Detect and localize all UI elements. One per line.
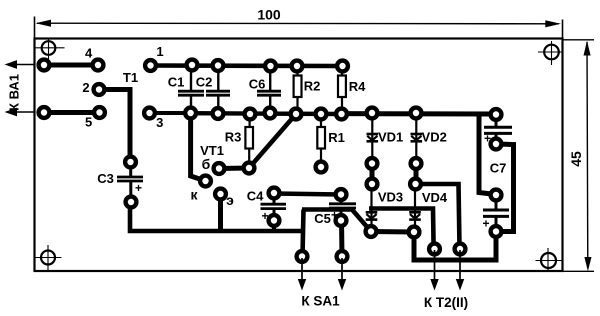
wire pad5L to pad5R	[44, 110, 100, 115]
pad C1 top	[184, 57, 199, 72]
wire pad2 to C3 top (T1 winding)	[99, 90, 130, 163]
resistor R4	[338, 76, 346, 98]
wire top bus pad1 to R4 top	[151, 63, 343, 68]
pad 3	[142, 105, 157, 120]
wire pad4L to pad4R	[44, 63, 98, 68]
svg-text:К Т2(II): К Т2(II)	[424, 295, 468, 310]
pad 5 left	[36, 105, 51, 120]
mounting hole bottom-right	[536, 248, 562, 271]
board outline	[35, 39, 563, 272]
pad C7 upper top	[488, 107, 503, 122]
wire VD3 anode to T2 pad left	[369, 209, 434, 248]
lead C6	[269, 70, 271, 90]
svg-text:э: э	[226, 192, 234, 208]
svg-text:3: 3	[156, 115, 163, 130]
capacitor C1	[178, 91, 204, 95]
pad base b	[211, 161, 226, 176]
wire branch down to C7 lower section	[479, 114, 496, 195]
svg-text:С6: С6	[249, 76, 266, 91]
svg-text:VD3: VD3	[378, 189, 403, 204]
pad C4 top	[266, 185, 281, 200]
resistor R3	[245, 127, 253, 149]
wire C7 upper-bottom right loop	[496, 144, 514, 232]
pad R3 top	[242, 106, 257, 121]
pad 5 right	[92, 105, 107, 120]
lead C1	[190, 69, 192, 90]
extension line top (right dim)	[563, 39, 594, 41]
svg-text:С2: С2	[196, 75, 213, 90]
lead C7 lower	[495, 198, 498, 210]
svg-text:+: +	[135, 181, 142, 195]
lead R1	[320, 118, 322, 128]
svg-text:С3: С3	[97, 171, 114, 186]
wire VT1 collector from C1 junction	[191, 113, 206, 181]
extension line right (top dim)	[562, 20, 564, 39]
diode VD4	[409, 212, 421, 219]
pad C5 bottom	[333, 213, 348, 228]
pad C6 top	[263, 58, 278, 73]
diode VD1	[367, 134, 379, 141]
pad VD2 bottom	[408, 156, 423, 171]
extension line bottom (right dim)	[563, 270, 594, 272]
wire VD2 bottom junction	[414, 164, 419, 185]
pad 2	[91, 82, 106, 97]
svg-text:100: 100	[257, 7, 281, 23]
pad 1	[143, 58, 158, 73]
lead C4	[273, 196, 276, 204]
diode VD3	[366, 212, 378, 219]
pad C7 lower top	[488, 187, 503, 202]
label K BA1	[7, 74, 22, 111]
svg-text:к: к	[190, 187, 198, 203]
svg-text:б: б	[202, 156, 211, 172]
svg-text:С4: С4	[247, 189, 264, 204]
capacitor C2	[206, 91, 230, 95]
svg-text:С1: С1	[168, 75, 185, 90]
pad R4 bottom	[334, 106, 349, 121]
wire VD3 bottom to VD4 bottom	[371, 229, 414, 235]
pad VD4 bottom	[406, 224, 421, 239]
svg-text:+: +	[482, 217, 489, 231]
wire vertical to SA1 left pad	[303, 210, 304, 257]
pad VD1 bottom	[364, 156, 379, 171]
lead VD2	[415, 117, 417, 159]
pad 4 left	[36, 57, 51, 72]
svg-text:2: 2	[82, 80, 89, 95]
lead C5	[340, 197, 343, 204]
pad R2 bottom junction	[288, 106, 303, 121]
pad C2 bottom	[210, 106, 225, 121]
extension line left (top dim)	[34, 17, 36, 39]
svg-text:4: 4	[85, 46, 93, 61]
svg-text:С7: С7	[490, 161, 507, 176]
pad C6 bottom	[262, 105, 277, 120]
wire VD1 bottom junction	[370, 164, 375, 185]
pad C7 lower bottom	[488, 224, 503, 239]
lead VD1	[371, 117, 373, 159]
pad R4 top	[335, 58, 350, 73]
pad R3 bottom junction	[241, 160, 256, 175]
pad SA1 left	[294, 249, 309, 264]
svg-text:45: 45	[568, 151, 584, 167]
arrow K SA1 right	[338, 258, 346, 291]
wire C4 bottom stub to bus	[272, 221, 276, 231]
lead C2	[217, 69, 219, 90]
capacitor C7 upper section	[484, 127, 512, 133]
capacitor C5	[329, 204, 356, 208]
wire VD4 top to T2 pad right	[416, 184, 460, 248]
svg-text:R4: R4	[349, 79, 366, 94]
resistor R2	[294, 76, 302, 98]
svg-text:С5: С5	[314, 211, 331, 226]
wire base b pad to R3 bottom	[219, 166, 249, 172]
svg-text:Т1: Т1	[123, 70, 138, 85]
mounting hole top-right	[538, 41, 563, 65]
arrow to BA1 upper	[5, 60, 36, 69]
svg-text:R3: R3	[225, 130, 242, 145]
pad VD2 top	[408, 105, 423, 120]
pad R1 bottom	[313, 159, 328, 174]
pad VD4 top	[408, 176, 423, 191]
lead R4	[341, 70, 343, 77]
lead VD3	[370, 188, 372, 227]
lead R2	[296, 70, 298, 77]
pad emitter e	[213, 186, 228, 201]
wire horizontal to C5 bottom plate	[302, 207, 352, 212]
pad C4 bottom	[266, 213, 281, 228]
resistor R1	[317, 127, 325, 149]
capacitor C4	[261, 204, 287, 208]
dimension line 45	[586, 42, 589, 268]
arrow K T2 left	[430, 250, 438, 291]
pad C2 top	[210, 58, 225, 73]
wire row2 C1b to R4b	[191, 111, 342, 116]
lead C3	[129, 164, 132, 177]
capacitor C6	[257, 91, 281, 95]
pad C3 top	[123, 154, 138, 169]
svg-text:К ВА1: К ВА1	[7, 74, 22, 111]
pad 4 right	[90, 57, 105, 72]
arrow K T2 right	[456, 250, 464, 291]
mounting hole bottom-left	[35, 245, 62, 271]
wire emitter to ground bus	[218, 194, 223, 231]
wire row2 R4b to C7 top	[342, 111, 497, 116]
pad T2 right	[452, 241, 467, 256]
lead R3	[249, 118, 251, 128]
pad T2 left	[427, 241, 442, 256]
svg-text:К SA1: К SA1	[301, 294, 340, 309]
svg-text:VD2: VD2	[422, 130, 447, 145]
wire C4 top to C5 top	[274, 194, 341, 195]
lead C7 upper	[495, 117, 498, 128]
pad VD1 top	[364, 105, 379, 120]
arrow to BA1 lower	[5, 108, 36, 117]
pad C5 top	[333, 187, 348, 202]
pad R2 top	[289, 58, 304, 73]
pad VD3 top	[364, 176, 379, 191]
pad VD3 bottom	[363, 224, 378, 239]
pad C1 bottom junction	[183, 105, 198, 120]
lead VD4	[414, 188, 416, 227]
mounting hole top-left	[35, 39, 65, 60]
pad C7 upper bottom	[488, 136, 503, 151]
wire diagonal C5 to VD3 bottom	[352, 210, 371, 232]
dimension line 100	[37, 22, 559, 25]
pad collector k	[198, 173, 213, 188]
pad SA1 right	[334, 249, 349, 264]
label 45	[568, 151, 584, 167]
svg-text:R1: R1	[328, 130, 345, 145]
capacitor C7 lower section	[483, 210, 509, 216]
svg-text:R2: R2	[304, 79, 321, 94]
svg-text:5: 5	[85, 115, 92, 130]
pad R1 top	[313, 106, 328, 121]
capacitor C3	[117, 177, 143, 181]
wire C5 bottom to SA1 right pad	[339, 221, 345, 257]
wire diagonal R3 bottom to R2 bottom	[249, 114, 296, 168]
wire ground bus from C3	[130, 202, 304, 231]
svg-text:VD1: VD1	[378, 130, 403, 145]
wire C7 bottom to VD4 bottom (ground return)	[414, 232, 496, 261]
svg-text:1: 1	[156, 44, 163, 59]
arrow K SA1 left	[298, 258, 306, 291]
svg-text:VD4: VD4	[422, 190, 448, 205]
diode VD2	[411, 134, 423, 141]
pad C3 bottom	[123, 194, 138, 209]
wire pad3 to C1 bottom	[150, 111, 191, 115]
